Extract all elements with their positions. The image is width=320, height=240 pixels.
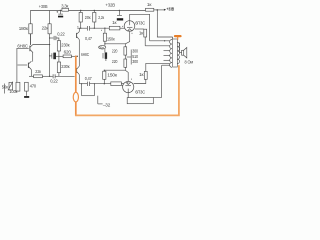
orange terminal bar top: [175, 36, 181, 39]
svg-text:150к: 150к: [107, 36, 115, 41]
svg-text:6Н8С: 6Н8С: [81, 52, 90, 57]
resistor R 470: [25, 82, 29, 91]
wire A continues: [90, 27, 110, 29]
resistor R 1k grid lower: [111, 82, 122, 86]
resistor R 1k rail box: [146, 8, 154, 11]
speaker cone: [184, 48, 187, 58]
svg-text:8 Ом: 8 Ом: [185, 60, 194, 65]
wire U loop bias: [82, 84, 103, 104]
capacitor C electrolytic cathode thick plate: [53, 53, 56, 60]
resistor R 2,2k: [93, 11, 96, 29]
tube V2 internals: [127, 21, 132, 31]
capacitor C electrolytic rail 2 lead: [118, 11, 120, 16]
transformer T1 core: [173, 39, 178, 67]
svg-text:0,47: 0,47: [85, 76, 92, 81]
speaker rect: [182, 50, 184, 55]
svg-text:230к: 230к: [61, 43, 70, 48]
svg-text:100к: 100к: [9, 89, 18, 94]
wire triode1 to node column: [33, 44, 50, 46]
resistor R 1k screen upper: [144, 29, 147, 37]
svg-text:0,47: 0,47: [85, 36, 92, 41]
svg-text:20к: 20к: [85, 15, 92, 20]
wire B lower grid line: [79, 83, 87, 85]
svg-text:230к: 230к: [61, 64, 70, 69]
wire to tube2 grid: [121, 83, 124, 85]
resistor R 3,3k box: [62, 8, 69, 11]
wire cluster mid: [124, 55, 126, 59]
svg-text:+32В: +32В: [105, 3, 115, 8]
svg-text:+33В: +33В: [167, 7, 175, 12]
cap plus sign rail1: [56, 11, 58, 13]
wire cluster bottom: [104, 67, 125, 70]
wire 620 to splitter cathode: [71, 55, 77, 57]
tube V3 circle lower 6P3S: [123, 81, 134, 92]
wire speaker lead: [180, 43, 182, 53]
resistor R 230k upper: [57, 41, 60, 51]
resistor R 230k lower: [57, 62, 60, 73]
svg-text:180к: 180к: [19, 26, 29, 31]
svg-text:22к: 22к: [42, 26, 49, 31]
capacitor C rail2 thick plate: [117, 18, 123, 20]
wire anode2 path: [127, 93, 129, 98]
tube V3 internals: [125, 82, 131, 93]
wire y76.3 right to splitter grid: [55, 75, 75, 77]
wire to tube1 grid: [120, 27, 125, 29]
wire screen lower to transformer: [146, 63, 170, 71]
svg-text:300: 300: [132, 48, 138, 53]
wire 22k drop: [49, 11, 51, 24]
svg-text:6П3С: 6П3С: [135, 20, 146, 25]
resistor R 22k lower box: [34, 75, 43, 78]
resistor R 20k: [79, 11, 82, 29]
capacitor C electrolytic rail 1 lead: [59, 11, 61, 14]
transformer T1 secondary winding: [177, 43, 179, 64]
wire g2 lower: [134, 79, 146, 83]
wire A upper grid line: [77, 27, 87, 29]
input pot 50k: [8, 82, 13, 91]
wire grid2: [18, 64, 28, 66]
wire node column x49.6: [49, 34, 51, 77]
wire SRPP link: [32, 52, 34, 61]
labels: [39, 2, 174, 12]
svg-text:470: 470: [30, 84, 37, 89]
wire 470 to ground: [25, 91, 27, 96]
resistor R 180k: [29, 24, 32, 34]
wire cathode2 up: [125, 70, 128, 81]
capacitor C cathode bypass thin plate: [102, 53, 104, 58]
capacitor C 0,47 upper plates: [88, 26, 90, 31]
svg-text:220: 220: [112, 48, 118, 53]
tube V2 circle upper 6P3S: [124, 21, 135, 32]
svg-text:6П3С: 6П3С: [135, 89, 146, 94]
wire y76.3 mid: [42, 75, 52, 77]
ground: [24, 96, 29, 98]
svg-text:0,22: 0,22: [50, 78, 58, 83]
wire splitter column: [78, 28, 80, 31]
wire 230k to 620 node: [58, 51, 60, 62]
pot ellipse 50u: [99, 46, 106, 49]
capacitor C rail2 thin plate: [117, 14, 122, 16]
svg-text:+30В: +30В: [39, 4, 48, 9]
capacitor C electrolytic cathode left thin plate: [51, 53, 53, 58]
transformer T1 primary winding: [170, 40, 172, 68]
wire cluster top: [105, 44, 125, 47]
svg-text:–32: –32: [103, 102, 111, 107]
wire g2 upper: [135, 28, 144, 30]
wire input: [4, 84, 6, 94]
phase splitter device lower: [77, 66, 80, 74]
resistor R 620 box: [63, 55, 71, 58]
svg-text:50к: 50к: [2, 84, 9, 89]
wire cap column: [105, 44, 106, 61]
resistor R 220 lower box: [124, 59, 127, 67]
wire screen upper to transformer: [144, 37, 146, 46]
wire cathode1 down: [125, 32, 129, 44]
svg-text:3,3к: 3,3к: [61, 4, 69, 9]
wire anode1 path: [130, 14, 150, 41]
svg-text:150к: 150к: [107, 73, 118, 78]
wire cap to 230k: [56, 38, 59, 41]
wire top rail +30V: [31, 11, 146, 45]
phase splitter device upper: [77, 32, 80, 40]
resistor R 1k screen lower: [144, 71, 147, 79]
wire B continues: [90, 83, 111, 85]
arrow +33V: [164, 9, 166, 11]
svg-text:2,2к: 2,2к: [98, 15, 105, 20]
capacitor C 0,22 lower plates: [53, 74, 55, 78]
resistor R 150k lower: [103, 70, 106, 84]
orange annotation wire: [76, 56, 179, 115]
svg-text:220: 220: [112, 59, 118, 64]
wire grid1: [17, 48, 29, 82]
resistor R 1k grid upper: [109, 26, 120, 30]
junction dots: [49, 9, 165, 84]
wire V1b cathode down: [30, 70, 32, 77]
svg-text:22к: 22к: [35, 69, 42, 74]
wire branch y38: [50, 37, 54, 39]
wire cluster right bracket: [127, 50, 132, 65]
svg-text:6Н8С: 6Н8С: [17, 43, 28, 48]
svg-text:0,22: 0,22: [57, 32, 65, 37]
wire splitter to wire B: [78, 75, 80, 84]
capacitor C 0,22 upper plates: [54, 36, 56, 40]
triode V1a glyph: [30, 34, 33, 53]
capacitor C rail1 thick plate: [58, 16, 63, 18]
wire +33V drop to transformer top: [157, 10, 172, 37]
wire rail right to +33V: [154, 9, 164, 11]
pin number specks: [77, 26, 132, 86]
transformer T1 leads: [145, 41, 170, 65]
capacitor C cathode bypass thick plate: [105, 52, 107, 59]
resistor R 220 upper box: [124, 47, 127, 55]
triode V1b glyph: [28, 61, 31, 69]
resistor R 22k upper: [48, 24, 51, 34]
svg-text:50м: 50м: [99, 45, 104, 49]
resistor R 150k upper: [103, 28, 106, 44]
capacitor C rail1 thin plate: [58, 13, 63, 15]
capacitor C 0,47 lower plates: [88, 82, 90, 86]
wire 230k lower leads: [58, 73, 60, 77]
svg-text:620: 620: [64, 49, 72, 54]
resistor R 100k: [16, 82, 20, 91]
wire cap leads: [50, 55, 64, 57]
svg-text:300: 300: [132, 59, 138, 64]
transformer T1 top lead: [172, 37, 174, 40]
wire y76.3 left: [29, 75, 34, 77]
orange loop ellipse: [73, 92, 78, 102]
